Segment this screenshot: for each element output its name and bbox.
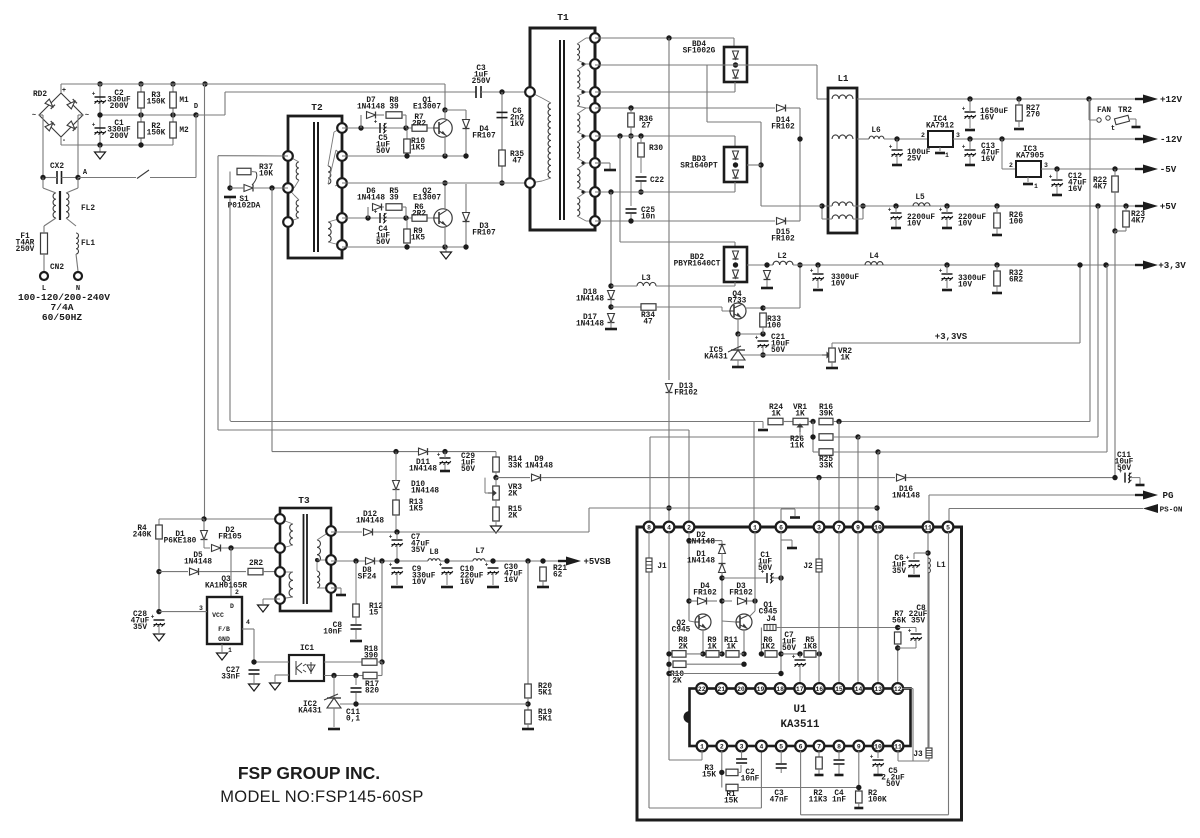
wire R3 column	[140, 84, 142, 115]
svg-text:3: 3	[199, 605, 203, 612]
dual diode BD2	[724, 247, 747, 282]
U1 outer pin 9	[853, 522, 864, 533]
U1 body pin 22	[696, 683, 707, 694]
resistor R10 internal	[673, 661, 686, 668]
svg-text:2R2: 2R2	[412, 211, 426, 219]
svg-text:1N4148: 1N4148	[411, 488, 439, 496]
resistor R34	[641, 304, 656, 311]
svg-text:FR102: FR102	[729, 590, 753, 598]
svg-text:+: +	[908, 627, 912, 634]
U1 body pin 10 bottom	[873, 741, 884, 752]
filter coil FL1	[76, 233, 78, 254]
wire R4 to C28	[158, 539, 160, 612]
arrow +3.3V	[1135, 264, 1145, 266]
diode D16	[897, 474, 906, 481]
svg-text:10nF: 10nF	[323, 629, 342, 637]
svg-text:+: +	[888, 206, 892, 213]
capacitor C1	[95, 127, 106, 129]
node Q2 collector on mid rail	[442, 180, 447, 185]
capacitor C6	[497, 111, 508, 113]
wire T2 top-left pin feedback	[218, 155, 288, 157]
T1 pin sec 1	[590, 33, 600, 43]
dual diode BD3	[724, 147, 747, 182]
diode D15	[777, 218, 786, 225]
T3 core	[303, 514, 305, 604]
wire bottom rail y145	[100, 144, 173, 146]
svg-text:GND: GND	[218, 636, 230, 643]
svg-text:3: 3	[956, 132, 960, 139]
wire pin5 outer column	[948, 532, 950, 815]
wire x813	[812, 422, 814, 453]
svg-text:FR107: FR107	[472, 230, 496, 238]
resistor R20	[525, 684, 532, 698]
node x669 top	[666, 35, 671, 40]
ground C11	[1136, 484, 1145, 487]
svg-text:17: 17	[796, 686, 804, 693]
wire D15 row y221	[595, 220, 775, 222]
wire R34 to Q4 base	[656, 306, 722, 308]
wire x1090 +12V sense	[1089, 99, 1091, 422]
wire IC1 to R17 row	[324, 675, 363, 677]
node R4 row	[201, 516, 206, 521]
resistor R35	[499, 150, 506, 166]
node PS-ON left row end	[874, 505, 879, 510]
wire x611 to L3	[610, 192, 612, 286]
wire pin3 internal column	[818, 532, 820, 684]
diode D10 R13 column	[393, 481, 400, 490]
wire x528 to R20	[527, 561, 529, 684]
shunt regulator IC2 KA431	[333, 676, 335, 699]
wire Q2 base row y218	[342, 217, 434, 219]
R12 C8 column	[355, 561, 357, 604]
wire pin2 internal column	[688, 532, 690, 621]
wire to U1 pin 9	[857, 437, 859, 522]
jumper J1	[648, 532, 650, 558]
T2 pin left 2	[283, 183, 293, 193]
resistor R5	[386, 204, 402, 211]
U1 body pin 9 bottom	[853, 741, 864, 752]
arrow -12V	[1135, 138, 1145, 140]
svg-text:1: 1	[945, 152, 949, 159]
svg-text:IC1: IC1	[300, 645, 314, 653]
T3 pin left 1	[275, 514, 285, 524]
svg-text:+: +	[439, 561, 443, 568]
wire -12V rail c	[953, 138, 1143, 140]
capacitor C3	[475, 86, 477, 98]
svg-text:35V: 35V	[892, 568, 906, 576]
svg-text:2: 2	[687, 524, 691, 531]
svg-text:FAN: FAN	[1097, 107, 1111, 115]
wire C1 row	[722, 577, 766, 579]
svg-text:F/B: F/B	[218, 626, 230, 633]
pin 11 to J3	[897, 751, 899, 761]
T2 pin right 5	[337, 240, 347, 250]
wire pin1 column	[754, 532, 756, 601]
wire R26 to +5V sense	[858, 436, 1098, 438]
svg-text:35V: 35V	[911, 618, 925, 626]
wire corner x225	[224, 92, 226, 115]
U1 body pin 3 bottom	[736, 741, 747, 752]
wire +3.3VS up	[1079, 265, 1081, 343]
svg-text:50V: 50V	[376, 148, 390, 156]
capacitor C21	[758, 340, 769, 342]
svg-text:L6: L6	[871, 127, 881, 135]
diode D1 P6KE180	[203, 519, 205, 530]
capacitor C5	[379, 123, 381, 133]
T2 pin left 1	[283, 151, 293, 161]
wire x669 lower	[668, 392, 670, 522]
diode D5	[190, 568, 199, 575]
node R12 top	[353, 558, 358, 563]
resistor R37	[237, 168, 251, 175]
regulator IC4 KA7912	[928, 131, 953, 147]
svg-text:J1: J1	[657, 563, 667, 571]
svg-text:11K: 11K	[790, 443, 804, 451]
transformer T1 box	[530, 28, 595, 230]
ground C9	[391, 586, 403, 589]
wire C3 row y92	[225, 91, 476, 93]
svg-text:11: 11	[924, 524, 932, 531]
arrow -5V	[1135, 168, 1145, 170]
wire center tap ground	[595, 162, 610, 164]
transistor Q1	[434, 119, 452, 137]
svg-text:16: 16	[815, 686, 823, 693]
wire R23 to R22 node	[1115, 230, 1126, 232]
svg-text:7: 7	[837, 524, 841, 531]
wire mid rail y183	[342, 182, 530, 184]
wire Q1 emitter rail y156	[342, 155, 466, 157]
wire x620 BD2 feed	[619, 136, 621, 242]
svg-text:1K: 1K	[771, 411, 781, 419]
wire to D4	[445, 109, 466, 111]
wire x1098 +5V sense	[1097, 206, 1099, 437]
resistor R17	[363, 672, 377, 679]
node R26 left	[810, 434, 815, 439]
ground C6 internal	[908, 575, 920, 578]
inductor L3	[637, 282, 656, 286]
ground IC5	[732, 366, 744, 369]
ground R15	[491, 526, 502, 533]
node IC2 top	[331, 673, 336, 678]
capacitor C27	[249, 669, 260, 671]
U1 body pin 1 bottom	[697, 741, 708, 752]
wire pin6 ground stub	[781, 539, 792, 541]
svg-text:2K: 2K	[678, 644, 688, 652]
T2 pin left 3	[283, 217, 293, 227]
diode D1 internal	[719, 564, 726, 573]
wire R17 up to R18	[381, 662, 383, 676]
svg-text:+: +	[792, 653, 796, 660]
wire -12V rail b	[884, 138, 928, 140]
wire F/B down	[253, 629, 255, 662]
svg-text:10K: 10K	[259, 171, 273, 179]
wire FL2 to FL1	[66, 218, 76, 226]
svg-text:-5V: -5V	[1160, 164, 1177, 175]
svg-text:3: 3	[740, 743, 744, 750]
wire J1 loop down	[648, 572, 650, 808]
capacitor C6 internal	[909, 560, 920, 562]
svg-text:8: 8	[837, 743, 841, 750]
svg-text:10: 10	[874, 743, 882, 750]
ground C13	[965, 164, 975, 167]
node C1 left	[719, 575, 724, 580]
svg-text:39: 39	[389, 104, 399, 112]
svg-text:2K: 2K	[508, 491, 518, 499]
diode D3	[463, 213, 470, 222]
resistor R19	[525, 710, 532, 724]
wire R2 column	[140, 115, 142, 145]
wire x800 sense	[799, 265, 801, 308]
svg-text:820: 820	[365, 688, 379, 696]
svg-text:L1: L1	[838, 74, 849, 84]
svg-text:T2: T2	[311, 102, 323, 113]
capacitor C22	[636, 176, 647, 178]
node BD4 center	[733, 62, 738, 67]
wire BD4 output y65	[595, 64, 817, 66]
capacitor 100uF 25V	[892, 149, 903, 151]
ground bar at S1	[224, 196, 236, 199]
svg-text:L3: L3	[641, 275, 651, 283]
svg-text:50V: 50V	[376, 239, 390, 247]
svg-text:15K: 15K	[724, 798, 738, 806]
wire Q1 emitter	[444, 136, 446, 156]
svg-text:50V: 50V	[758, 565, 772, 573]
capacitor C28	[154, 619, 165, 621]
regulator IC3 KA7905	[1001, 139, 1003, 169]
connector CN2 terminal N	[74, 272, 82, 280]
wire PS-ON from U1 pin 5	[948, 509, 950, 523]
inductor block L1	[828, 88, 857, 233]
U1 internal D4 D3 row	[686, 598, 691, 603]
T2 pin right 2	[337, 151, 347, 161]
svg-text:FR102: FR102	[771, 236, 795, 244]
capacitor C13	[965, 149, 976, 151]
svg-text:L7: L7	[475, 548, 485, 556]
capacitor 2200uF a	[891, 212, 902, 214]
svg-text:P0102DA: P0102DA	[228, 203, 261, 211]
svg-text:3: 3	[817, 524, 821, 531]
resistor R21	[540, 567, 547, 581]
node PS-ON row	[666, 505, 671, 510]
ground below C1	[95, 152, 106, 159]
ground 100uF	[892, 164, 902, 167]
svg-text:1: 1	[228, 647, 232, 654]
svg-text:47: 47	[643, 319, 653, 327]
wire Q4 collector down	[737, 319, 739, 334]
svg-text:100K: 100K	[868, 797, 887, 805]
svg-text:10n: 10n	[641, 214, 655, 222]
resistor R30	[638, 143, 645, 157]
T3 winding right lower	[317, 571, 320, 588]
svg-text:14: 14	[855, 686, 863, 693]
wire L1 right link	[862, 206, 864, 219]
inductor L8	[428, 559, 440, 561]
U1 outer pin 2	[684, 522, 695, 533]
U1 body pin 2 bottom	[716, 741, 727, 752]
svg-text:FR102: FR102	[674, 390, 698, 398]
ground C5	[874, 774, 883, 777]
svg-text:+: +	[92, 121, 96, 128]
wire VCC row	[159, 611, 207, 613]
node clamp diode	[764, 262, 769, 267]
resistor R26 100	[994, 213, 1001, 228]
svg-text:6R2: 6R2	[1009, 277, 1023, 285]
diode D17	[608, 314, 615, 323]
resistor R7 internal	[894, 632, 901, 644]
wire IC1 to R18	[324, 661, 362, 663]
node D10 top	[393, 449, 398, 454]
wire bridge + to top rail	[60, 84, 62, 93]
svg-text:~: ~	[85, 112, 89, 120]
wire to U1 pin 7	[838, 422, 840, 523]
svg-text:1N4148: 1N4148	[409, 466, 437, 474]
svg-text:FR105: FR105	[218, 534, 242, 542]
svg-text:1K: 1K	[795, 411, 805, 419]
node D	[193, 112, 198, 117]
node BD2 center	[733, 262, 738, 267]
ground C12	[1052, 194, 1062, 197]
ground IC4	[935, 152, 945, 155]
wire IC1 pin to ground	[275, 674, 289, 676]
wire PS-ON riser	[588, 508, 590, 532]
potentiometer VR3	[493, 486, 500, 500]
wire M2 column	[172, 115, 174, 145]
wire switch to D node	[150, 177, 196, 179]
svg-text:KA431: KA431	[298, 708, 322, 716]
U1 body pin 16	[814, 683, 825, 694]
svg-text:-: -	[62, 137, 66, 145]
wire C3 to T1	[481, 91, 530, 93]
svg-text:270: 270	[1026, 112, 1040, 120]
T1 pin sec 6	[590, 158, 600, 168]
row y673 to pin 18	[666, 671, 671, 676]
wire +5V rail b	[857, 205, 1143, 207]
wire C27 node to IC1	[254, 661, 289, 663]
node VR1 right	[810, 419, 815, 424]
resistor R36	[628, 113, 635, 127]
U1 outer pin 7	[834, 522, 845, 533]
snubber R36 C25 column	[628, 105, 633, 110]
resistor R9	[404, 229, 411, 243]
ground R19	[522, 728, 534, 731]
svg-text:35V: 35V	[133, 624, 147, 632]
svg-text:KA431: KA431	[704, 354, 728, 362]
svg-text:VCC: VCC	[212, 612, 224, 619]
node R22 R23	[1112, 228, 1117, 233]
wire +3.3VS sense	[832, 342, 1080, 344]
svg-text:1nF: 1nF	[832, 797, 846, 805]
diode D9	[532, 474, 541, 481]
wire FL2 to F1	[44, 218, 56, 226]
wire BD3 top row y136	[595, 135, 735, 137]
transformer FL2	[53, 193, 56, 218]
capacitor 1650uF	[965, 111, 976, 113]
node R34 row	[608, 304, 613, 309]
svg-text:5: 5	[779, 743, 783, 750]
wire T3 pin4 to ground	[263, 598, 280, 600]
U1 outer pin 5	[943, 522, 954, 533]
resistor R22	[1112, 176, 1119, 192]
wire to switch	[78, 177, 136, 179]
svg-text:0,1: 0,1	[346, 716, 360, 724]
svg-text:+12V: +12V	[1160, 94, 1183, 105]
wire pin11 column	[927, 532, 929, 748]
node C11 01 top	[353, 673, 358, 678]
svg-text:9: 9	[856, 524, 860, 531]
svg-text:16V: 16V	[504, 577, 518, 585]
T1 pin sec 7	[590, 187, 600, 197]
capacitor C30	[488, 567, 499, 569]
wire y122	[707, 121, 761, 123]
svg-text:8: 8	[647, 524, 651, 531]
inductor L4	[865, 262, 883, 265]
capacitor C10	[442, 567, 453, 569]
capacitor C29	[440, 457, 451, 459]
T3 pin left 4	[275, 594, 285, 604]
U1 body pin 15	[834, 683, 845, 694]
svg-text:L5: L5	[915, 194, 925, 202]
U1 outer pin 6	[776, 522, 787, 533]
svg-text:2: 2	[921, 132, 925, 139]
capacitor C12	[1052, 179, 1063, 181]
T2 internal connection wires	[288, 156, 299, 162]
wire Q1 collector to top rail	[444, 84, 446, 110]
ground IC3	[1023, 183, 1033, 186]
resistor R15	[493, 507, 500, 521]
wire to L1 +12V	[816, 65, 818, 99]
diode D2	[212, 545, 221, 552]
wire J1 loop to body pin 4	[760, 752, 762, 808]
svg-text:KA7905: KA7905	[1016, 153, 1044, 161]
svg-text:1kV: 1kV	[510, 121, 524, 129]
ground 2200uF a	[891, 227, 901, 230]
T2 winding right upper	[328, 166, 331, 184]
resistor R10	[404, 139, 411, 153]
wire long vertical x272	[271, 188, 273, 452]
L1 winding +5V a	[832, 202, 853, 206]
connector CN2 terminal L	[40, 272, 48, 280]
svg-text:16V: 16V	[980, 115, 994, 123]
svg-text:FL2: FL2	[81, 205, 95, 213]
svg-text:25V: 25V	[907, 156, 921, 164]
svg-text:1N4148: 1N4148	[892, 493, 920, 501]
svg-text:20: 20	[737, 686, 745, 693]
wire T1 sec1 to BD4	[595, 37, 734, 39]
C5 2.2uF	[877, 751, 879, 758]
ground IC2	[328, 728, 340, 731]
svg-text:1N4148: 1N4148	[687, 539, 715, 547]
wire pin2 bottom column	[721, 751, 723, 788]
node top rail C2	[97, 81, 102, 86]
wire D node vertical	[195, 115, 197, 178]
wire J4 row to R7	[776, 627, 898, 629]
svg-text:10V: 10V	[958, 221, 972, 229]
svg-text:KA1H0165R: KA1H0165R	[205, 583, 247, 591]
T1 pin primary top	[525, 87, 535, 97]
arrow +5V	[1135, 205, 1145, 207]
svg-text:+: +	[962, 143, 966, 150]
transistor Q2	[434, 209, 452, 227]
svg-text:+: +	[151, 613, 155, 620]
T3 winding left lower	[289, 572, 293, 597]
ground R27	[1014, 128, 1024, 131]
svg-text:150K: 150K	[147, 99, 166, 107]
svg-text:D: D	[230, 603, 234, 610]
jumper J3	[926, 748, 932, 758]
capacitor C3 47nF	[776, 763, 787, 765]
wire to L2 output sense	[763, 307, 800, 309]
capacitor C2	[95, 96, 106, 98]
